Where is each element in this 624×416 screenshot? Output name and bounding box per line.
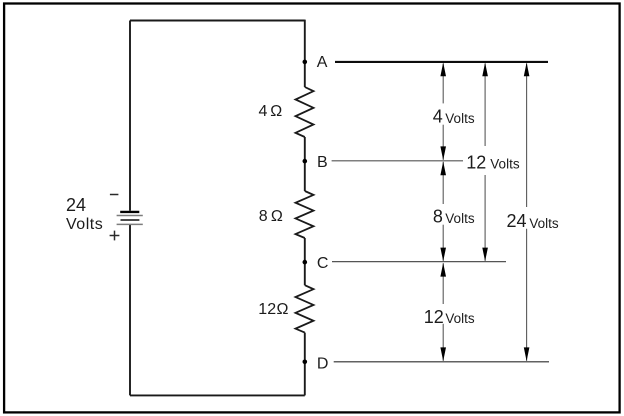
- svg-text:Volts: Volts: [490, 157, 520, 172]
- svg-text:8: 8: [259, 208, 268, 225]
- battery BT1 24 Volts: [117, 212, 143, 225]
- battery minus sign: [110, 194, 119, 196]
- node C horizontal line: [332, 261, 506, 263]
- node A horizontal line: [335, 61, 548, 63]
- svg-text:B: B: [317, 154, 328, 171]
- svg-text:12: 12: [466, 152, 486, 172]
- svg-text:12: 12: [258, 301, 276, 318]
- node C junction dot: [303, 260, 308, 265]
- arrowhead down at B (4 Volts): [440, 146, 446, 160]
- node B junction dot: [303, 159, 308, 164]
- svg-text:8: 8: [433, 207, 443, 227]
- arrowhead up at A (12 Volts): [482, 63, 488, 77]
- svg-text:Volts: Volts: [445, 311, 475, 326]
- svg-text:4: 4: [259, 103, 268, 120]
- resistor R1 4 ohm: [296, 87, 314, 137]
- svg-text:Ω: Ω: [271, 208, 283, 225]
- wire: top wire: [130, 20, 305, 22]
- svg-text:Volts: Volts: [529, 216, 559, 231]
- svg-text:A: A: [317, 54, 328, 71]
- arrowhead down at D (12 Volts): [440, 347, 446, 361]
- wire: bottom wire: [130, 394, 305, 396]
- resistor R2 8 ohm: [296, 191, 314, 238]
- arrowhead down at C (8 Volts): [440, 248, 446, 262]
- dimension line 3 (x=526.6): A-D 24 Volts: [526, 64, 528, 208]
- svg-text:Volts: Volts: [445, 211, 475, 226]
- node B horizontal line: [332, 160, 463, 162]
- arrowhead up at A (4 Volts): [440, 63, 446, 77]
- svg-text:D: D: [317, 355, 329, 372]
- dimension line 1: B-C 8 Volts segment: [442, 162, 444, 204]
- node D junction dot: [303, 360, 308, 365]
- dimension line 1: C-D 12 Volts segment: [442, 263, 444, 304]
- arrowhead up at C (12 Volts): [440, 263, 446, 277]
- battery plate 3 (short, negative): [121, 219, 140, 221]
- arrowhead up at B (8 Volts): [440, 162, 446, 176]
- dimension line 2 (x=485): A-C 12 Volts: [484, 64, 486, 147]
- battery plate 4 (long, positive): [117, 223, 143, 225]
- arrowhead up at A (24 Volts): [524, 63, 530, 77]
- dimension line 1 (x=443): A-B 4 Volts segment: [442, 64, 444, 104]
- svg-text:24: 24: [66, 195, 86, 215]
- battery plate 2 (long, positive): [117, 215, 143, 217]
- svg-text:12: 12: [424, 307, 444, 327]
- arrowhead down at C (12 Volts): [482, 248, 488, 262]
- svg-text:Ω: Ω: [277, 301, 289, 318]
- node D horizontal line: [334, 361, 549, 363]
- wire: column between R1 and R2: [304, 137, 306, 191]
- svg-text:C: C: [317, 255, 329, 272]
- svg-text:4: 4: [433, 107, 443, 127]
- wire: left branch top (battery negative to top-left corner): [129, 21, 131, 211]
- battery plus sign: [110, 231, 120, 241]
- arrowhead down at D (24 Volts): [524, 347, 530, 361]
- resistor R3 12 ohm: [296, 285, 314, 332]
- wire: column bottom segment (R3 through node D to bottom wire): [304, 333, 306, 396]
- svg-text:Volts: Volts: [66, 216, 103, 233]
- wire: column between R2 and R3: [304, 238, 306, 285]
- node A junction dot: [303, 60, 308, 65]
- wire: right column top segment (to node A and R1): [304, 20, 306, 87]
- svg-text:24: 24: [507, 211, 527, 231]
- wire: left branch bottom (bottom wire to battery positive): [129, 225, 131, 396]
- svg-text:Ω: Ω: [270, 103, 282, 120]
- battery plate 1 (short, negative, thick): [120, 211, 139, 213]
- svg-text:Volts: Volts: [445, 111, 475, 126]
